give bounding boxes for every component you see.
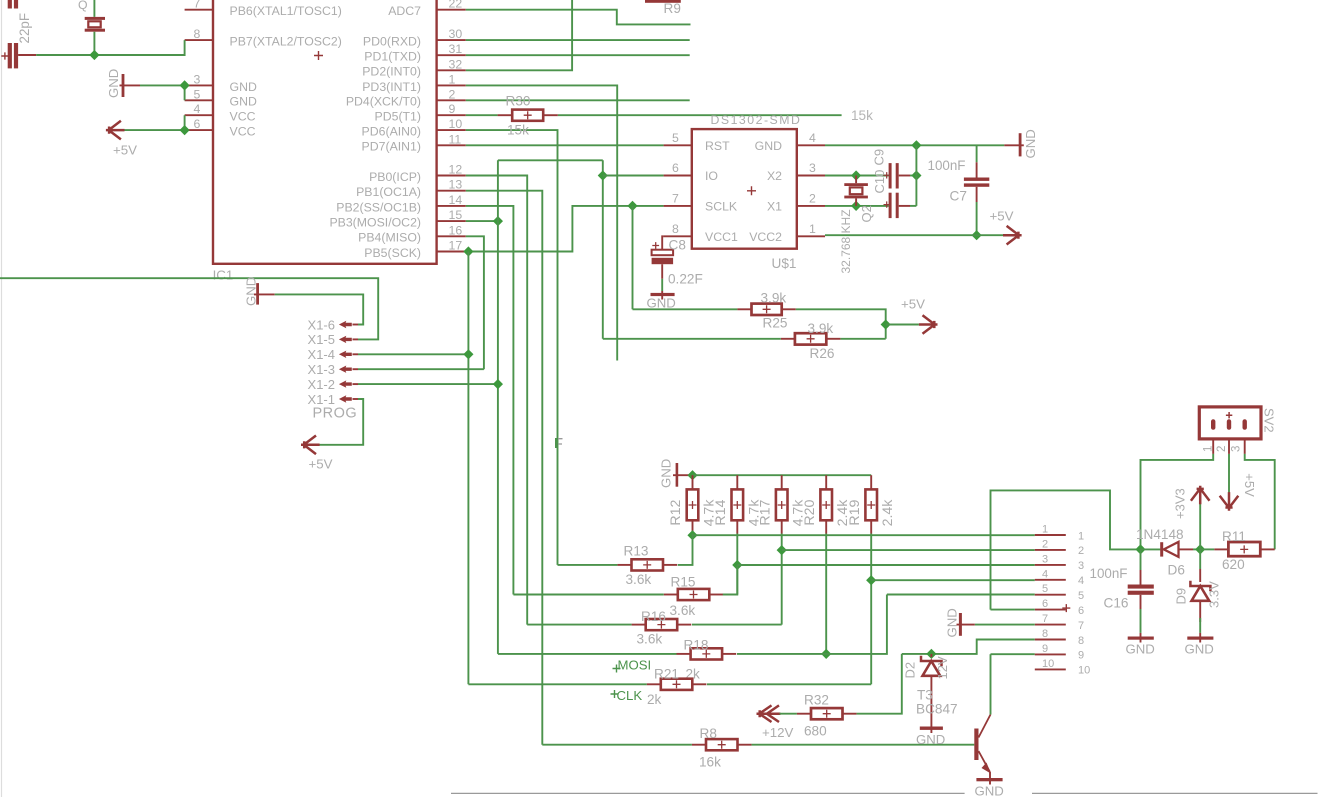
svg-text:GND: GND	[1185, 642, 1214, 657]
svg-text:4: 4	[809, 131, 816, 145]
svg-text:D2: D2	[903, 662, 918, 679]
svg-text:R20: R20	[802, 499, 818, 525]
svg-text:DS1302-SMD: DS1302-SMD	[711, 113, 802, 127]
svg-text:+5V: +5V	[113, 143, 137, 158]
svg-text:8: 8	[194, 27, 201, 41]
svg-text:4: 4	[194, 102, 201, 116]
svg-text:2.4k: 2.4k	[880, 499, 896, 527]
svg-text:PD5(T1): PD5(T1)	[375, 110, 421, 124]
svg-text:31: 31	[449, 42, 463, 56]
svg-text:PB4(MISO): PB4(MISO)	[358, 231, 421, 245]
svg-text:GND: GND	[755, 139, 782, 153]
svg-text:GND: GND	[647, 296, 676, 311]
svg-text:+3V3: +3V3	[1173, 488, 1188, 519]
svg-text:PB0(ICP): PB0(ICP)	[369, 170, 421, 184]
svg-text:9: 9	[1042, 643, 1048, 655]
svg-text:22: 22	[449, 0, 463, 11]
svg-text:R21: R21	[654, 666, 679, 681]
svg-text:PB2(SS/OC1B): PB2(SS/OC1B)	[336, 200, 421, 214]
svg-text:3.6k: 3.6k	[626, 572, 652, 587]
svg-text:VCC1: VCC1	[705, 230, 738, 244]
svg-text:6: 6	[1078, 605, 1084, 617]
svg-text:12V: 12V	[935, 656, 950, 679]
svg-text:R17: R17	[757, 499, 773, 525]
svg-text:PD1(TXD): PD1(TXD)	[364, 50, 421, 64]
svg-text:8: 8	[1078, 635, 1084, 647]
svg-text:X1: X1	[767, 200, 782, 214]
svg-text:3: 3	[809, 161, 816, 175]
svg-text:PB6(XTAL1/TOSC1): PB6(XTAL1/TOSC1)	[230, 4, 342, 18]
svg-text:R30: R30	[506, 94, 531, 109]
svg-text:1: 1	[809, 222, 816, 236]
svg-text:PB7(XTAL2/TOSC2): PB7(XTAL2/TOSC2)	[230, 35, 342, 49]
svg-text:PD7(AIN1): PD7(AIN1)	[362, 140, 421, 154]
svg-text:30: 30	[449, 27, 463, 41]
svg-text:BC847: BC847	[916, 702, 958, 717]
svg-text:6: 6	[672, 161, 679, 175]
svg-text:9: 9	[1078, 650, 1084, 662]
svg-text:GND: GND	[945, 608, 960, 637]
svg-text:2: 2	[449, 87, 456, 101]
svg-text:17: 17	[449, 239, 463, 253]
svg-text:3: 3	[1042, 553, 1048, 565]
svg-text:7: 7	[1078, 620, 1084, 632]
svg-text:R12: R12	[668, 499, 684, 525]
svg-text:5: 5	[1042, 583, 1048, 595]
svg-text:D6: D6	[1168, 563, 1185, 578]
svg-text:VCC: VCC	[230, 110, 256, 124]
svg-text:9: 9	[449, 102, 456, 116]
svg-text:10: 10	[449, 117, 463, 131]
svg-text:2k: 2k	[647, 692, 662, 707]
svg-text:X1-5: X1-5	[308, 332, 335, 347]
svg-text:2: 2	[809, 191, 816, 205]
svg-text:100nF: 100nF	[1090, 566, 1128, 581]
svg-text:C10: C10	[872, 170, 887, 194]
svg-text:1: 1	[449, 72, 456, 86]
svg-text:C16: C16	[1104, 596, 1129, 611]
svg-text:GND: GND	[230, 95, 257, 109]
svg-text:X2: X2	[767, 169, 782, 183]
svg-text:GND: GND	[1023, 129, 1038, 158]
svg-text:15: 15	[449, 208, 463, 222]
svg-text:GND: GND	[975, 784, 1004, 797]
svg-text:+5V: +5V	[309, 457, 333, 472]
svg-text:GND: GND	[106, 69, 121, 98]
svg-text:3.6k: 3.6k	[670, 603, 696, 618]
svg-text:100nF: 100nF	[928, 158, 966, 173]
svg-text:1: 1	[1042, 524, 1048, 536]
svg-text:SCLK: SCLK	[705, 200, 738, 214]
svg-text:22pF: 22pF	[17, 13, 32, 44]
svg-text:U$1: U$1	[772, 256, 797, 271]
svg-text:VCC2: VCC2	[749, 230, 782, 244]
svg-text:15k: 15k	[851, 108, 873, 123]
svg-text:14: 14	[449, 193, 463, 207]
svg-text:3: 3	[194, 72, 201, 86]
svg-text:2: 2	[1042, 538, 1048, 550]
svg-text:3.9k: 3.9k	[761, 291, 787, 306]
svg-text:R14: R14	[713, 499, 729, 525]
svg-text:13: 13	[449, 178, 463, 192]
svg-text:D9: D9	[1174, 588, 1189, 605]
svg-text:7: 7	[194, 0, 201, 11]
svg-text:R19: R19	[847, 499, 863, 525]
svg-text:R16: R16	[641, 609, 666, 624]
svg-text:16: 16	[449, 223, 463, 237]
svg-text:PD4(XCK/T0): PD4(XCK/T0)	[346, 95, 421, 109]
svg-text:GND: GND	[243, 277, 258, 306]
svg-text:PB3(MOSI/OC2): PB3(MOSI/OC2)	[329, 216, 421, 230]
svg-text:VCC: VCC	[230, 125, 256, 139]
svg-text:1: 1	[1202, 446, 1214, 452]
svg-text:12: 12	[449, 163, 463, 177]
svg-text:4: 4	[1042, 568, 1048, 580]
svg-text:ADC7: ADC7	[388, 4, 421, 18]
svg-text:2: 2	[1078, 545, 1084, 557]
svg-text:Q2: Q2	[859, 205, 874, 222]
svg-text:PB1(OC1A): PB1(OC1A)	[356, 185, 421, 199]
svg-text:IO: IO	[705, 169, 718, 183]
svg-text:C9: C9	[872, 149, 887, 166]
svg-text:32.768 KHZ: 32.768 KHZ	[839, 209, 853, 273]
svg-text:3.6k: 3.6k	[637, 632, 663, 647]
svg-text:CLK: CLK	[617, 688, 643, 703]
svg-text:PD0(RXD): PD0(RXD)	[363, 35, 421, 49]
svg-text:GND: GND	[916, 732, 945, 747]
svg-text:10: 10	[1078, 665, 1090, 677]
svg-text:T3: T3	[917, 688, 933, 703]
svg-text:0.22F: 0.22F	[668, 272, 703, 287]
svg-text:PD2(INT0): PD2(INT0)	[362, 65, 421, 79]
svg-text:X1-4: X1-4	[308, 347, 335, 362]
svg-text:SV2: SV2	[1262, 408, 1277, 433]
svg-text:+5V: +5V	[901, 297, 925, 312]
svg-text:R18: R18	[684, 638, 709, 653]
svg-text:7: 7	[1042, 613, 1048, 625]
svg-text:PD6(AIN0): PD6(AIN0)	[362, 125, 421, 139]
svg-text:+12V: +12V	[762, 725, 794, 740]
svg-text:3: 3	[1078, 560, 1084, 572]
svg-text:Q: Q	[78, 0, 88, 12]
svg-text:MOSI: MOSI	[618, 658, 652, 673]
svg-text:620: 620	[1222, 557, 1245, 572]
svg-text:3.3V: 3.3V	[1207, 581, 1222, 608]
svg-text:680: 680	[804, 724, 827, 739]
svg-text:+5V: +5V	[990, 209, 1014, 224]
svg-text:3.9k: 3.9k	[808, 321, 834, 336]
svg-text:1: 1	[1078, 530, 1084, 542]
svg-text:X1-3: X1-3	[308, 362, 335, 377]
svg-text:16k: 16k	[699, 755, 721, 770]
svg-text:PD3(INT1): PD3(INT1)	[362, 80, 421, 94]
svg-text:GND: GND	[659, 459, 674, 488]
svg-text:15k: 15k	[507, 123, 529, 138]
svg-text:5: 5	[672, 131, 679, 145]
svg-text:8: 8	[1042, 628, 1048, 640]
svg-text:R11: R11	[1222, 529, 1246, 544]
svg-text:X1-2: X1-2	[308, 377, 335, 392]
svg-text:R13: R13	[624, 544, 649, 559]
svg-text:C7: C7	[950, 189, 967, 204]
svg-text:X1-6: X1-6	[308, 317, 335, 332]
svg-text:32: 32	[449, 57, 463, 71]
svg-text:R15: R15	[671, 575, 696, 590]
svg-text:5: 5	[1078, 590, 1084, 602]
svg-text:PROG: PROG	[313, 406, 358, 422]
svg-text:PB5(SCK): PB5(SCK)	[364, 246, 421, 260]
svg-text:R9: R9	[664, 1, 681, 16]
svg-text:R32: R32	[804, 693, 829, 708]
svg-text:10: 10	[1042, 658, 1054, 670]
svg-text:6: 6	[194, 117, 201, 131]
svg-text:1N4148: 1N4148	[1136, 527, 1184, 542]
svg-text:R26: R26	[810, 346, 835, 361]
svg-text:C8: C8	[669, 238, 686, 253]
svg-text:RST: RST	[705, 139, 730, 153]
svg-text:11: 11	[449, 132, 462, 146]
svg-text:5: 5	[194, 87, 201, 101]
svg-text:R25: R25	[763, 316, 788, 331]
svg-text:7: 7	[672, 191, 679, 205]
svg-text:R8: R8	[700, 726, 717, 741]
svg-text:8: 8	[672, 222, 679, 236]
svg-text:GND: GND	[1126, 642, 1155, 657]
svg-text:6: 6	[1042, 598, 1048, 610]
svg-text:GND: GND	[230, 80, 257, 94]
svg-text:2: 2	[1216, 446, 1228, 452]
svg-text:IC1: IC1	[213, 268, 234, 283]
svg-text:4: 4	[1078, 575, 1084, 587]
svg-text:+5V: +5V	[1242, 473, 1257, 497]
svg-text:3: 3	[1231, 446, 1243, 452]
